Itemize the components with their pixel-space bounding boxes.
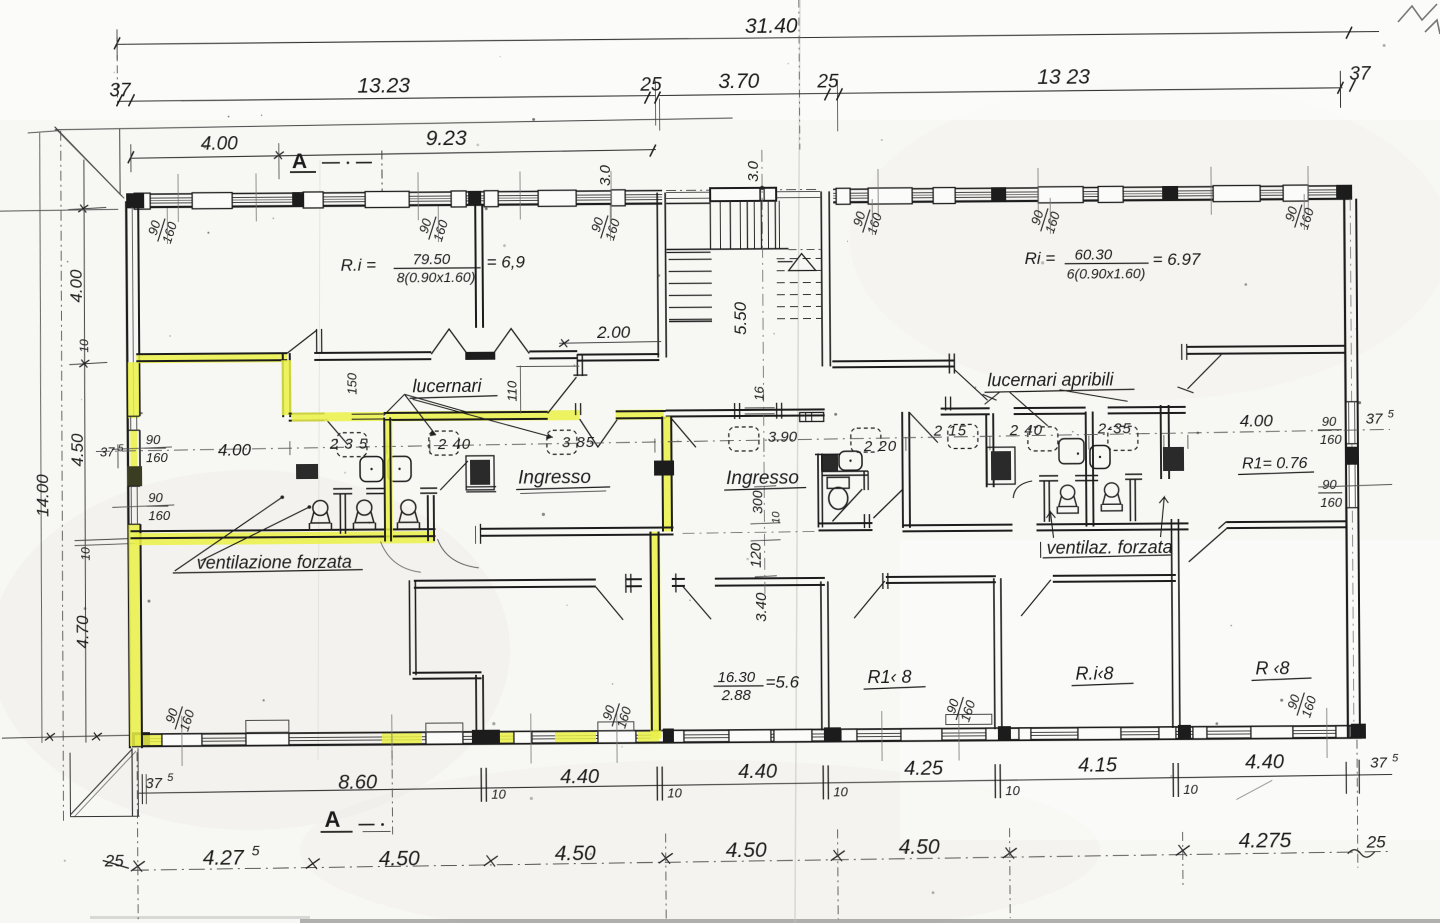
svg-text:120: 120 (748, 542, 765, 568)
svg-text:79.50: 79.50 (413, 251, 451, 268)
svg-text:R1‹ 8: R1‹ 8 (867, 667, 911, 687)
svg-text:37: 37 (145, 775, 162, 792)
svg-text:3.70: 3.70 (718, 70, 759, 93)
svg-text:10: 10 (833, 784, 848, 799)
svg-text:90: 90 (148, 490, 163, 505)
svg-text:5: 5 (1388, 408, 1395, 420)
svg-text:160: 160 (148, 508, 171, 523)
svg-text:4.50: 4.50 (68, 433, 87, 467)
svg-text:150: 150 (344, 372, 359, 395)
svg-text:10: 10 (491, 787, 506, 802)
svg-text:37: 37 (100, 444, 115, 459)
svg-text:2 15: 2 15 (933, 422, 967, 439)
svg-text:A: A (292, 150, 307, 173)
svg-text:6(0.90x1.60): 6(0.90x1.60) (1067, 265, 1146, 282)
svg-text:160: 160 (146, 450, 169, 465)
svg-text:2-35: 2-35 (1097, 420, 1132, 437)
svg-text:5: 5 (252, 842, 260, 858)
svg-text:90: 90 (146, 432, 161, 447)
svg-text:2 40: 2 40 (437, 436, 471, 453)
svg-text:ventilaz. forzata: ventilaz. forzata (1047, 537, 1173, 558)
svg-text:8(0.90x1.60): 8(0.90x1.60) (397, 269, 476, 286)
svg-text:8.60: 8.60 (338, 772, 377, 794)
svg-text:10: 10 (79, 547, 93, 561)
svg-text:37: 37 (1366, 411, 1383, 428)
svg-text:4.40: 4.40 (1245, 751, 1284, 773)
svg-text:lucernari apribili: lucernari apribili (987, 369, 1114, 390)
svg-text:Ri =: Ri = (1025, 249, 1056, 268)
svg-text:14.00: 14.00 (33, 474, 52, 517)
svg-text:10: 10 (1005, 783, 1020, 798)
svg-text:90: 90 (1322, 477, 1337, 492)
svg-text:5: 5 (167, 772, 174, 784)
svg-text:4.50: 4.50 (726, 839, 767, 862)
svg-text:3 85: 3 85 (562, 434, 595, 451)
svg-text:4.00: 4.00 (67, 269, 86, 303)
svg-text:16.30: 16.30 (717, 669, 755, 686)
svg-text:R1= 0.76: R1= 0.76 (1242, 455, 1308, 472)
svg-text:4.50: 4.50 (899, 836, 940, 859)
svg-text:4.27: 4.27 (203, 846, 245, 869)
svg-text:2.00: 2.00 (596, 323, 631, 342)
svg-text:Ingresso: Ingresso (518, 467, 591, 489)
svg-text:4.15: 4.15 (1078, 754, 1118, 776)
svg-text:13.23: 13.23 (357, 74, 410, 97)
svg-text:=5.6: =5.6 (765, 673, 799, 692)
svg-text:60.30: 60.30 (1075, 246, 1113, 263)
svg-text:160: 160 (1320, 432, 1343, 447)
svg-text:= 6,9: = 6,9 (487, 252, 526, 271)
svg-text:lucernari: lucernari (412, 376, 482, 396)
svg-text:4.40: 4.40 (738, 761, 777, 783)
svg-text:10: 10 (770, 511, 782, 524)
svg-text:2 20: 2 20 (863, 438, 897, 455)
svg-text:3.0: 3.0 (745, 160, 762, 182)
svg-text:ventilazione forzata: ventilazione forzata (197, 552, 352, 573)
svg-text:37: 37 (1370, 754, 1387, 771)
svg-text:R.i‹8: R.i‹8 (1075, 663, 1113, 683)
svg-text:110: 110 (504, 380, 519, 402)
svg-text:R ‹8: R ‹8 (1255, 658, 1289, 678)
svg-text:9.23: 9.23 (426, 127, 467, 150)
svg-text:90: 90 (1322, 414, 1337, 429)
svg-text:25: 25 (104, 851, 125, 870)
svg-text:5.50: 5.50 (731, 301, 750, 335)
svg-text:R.i =: R.i = (341, 256, 377, 275)
svg-text:= 6.97: = 6.97 (1153, 250, 1201, 269)
svg-text:A: A (324, 807, 340, 832)
svg-text:4.70: 4.70 (73, 615, 92, 649)
svg-text:3.0: 3.0 (597, 164, 614, 186)
svg-text:2.88: 2.88 (721, 687, 752, 704)
svg-text:5: 5 (1392, 752, 1399, 764)
svg-text:4.00: 4.00 (1240, 411, 1274, 430)
svg-text:10: 10 (77, 339, 91, 353)
svg-text:13 23: 13 23 (1037, 66, 1090, 89)
svg-text:25: 25 (1366, 832, 1387, 851)
svg-text:4.275: 4.275 (1239, 829, 1292, 852)
svg-text:2 40: 2 40 (1009, 422, 1043, 439)
svg-text:4.40: 4.40 (560, 766, 599, 788)
svg-text:4.50: 4.50 (379, 847, 420, 870)
svg-text:2 3 5: 2 3 5 (329, 436, 368, 453)
svg-text:25: 25 (816, 71, 839, 92)
svg-text:160: 160 (1320, 495, 1343, 510)
svg-text:3.40: 3.40 (753, 592, 770, 622)
svg-text:4.00: 4.00 (201, 133, 239, 154)
svg-text:3.90: 3.90 (768, 429, 798, 446)
svg-text:31.40: 31.40 (745, 15, 798, 38)
svg-text:10: 10 (667, 785, 682, 800)
svg-text:Ingresso: Ingresso (726, 468, 799, 490)
svg-text:300: 300 (749, 490, 765, 514)
svg-text:10: 10 (1183, 782, 1198, 797)
svg-text:4.25: 4.25 (904, 758, 944, 780)
svg-text:4.00: 4.00 (218, 440, 252, 459)
svg-text:5: 5 (118, 443, 124, 454)
svg-text:37: 37 (1349, 64, 1372, 85)
svg-text:16: 16 (751, 386, 766, 401)
